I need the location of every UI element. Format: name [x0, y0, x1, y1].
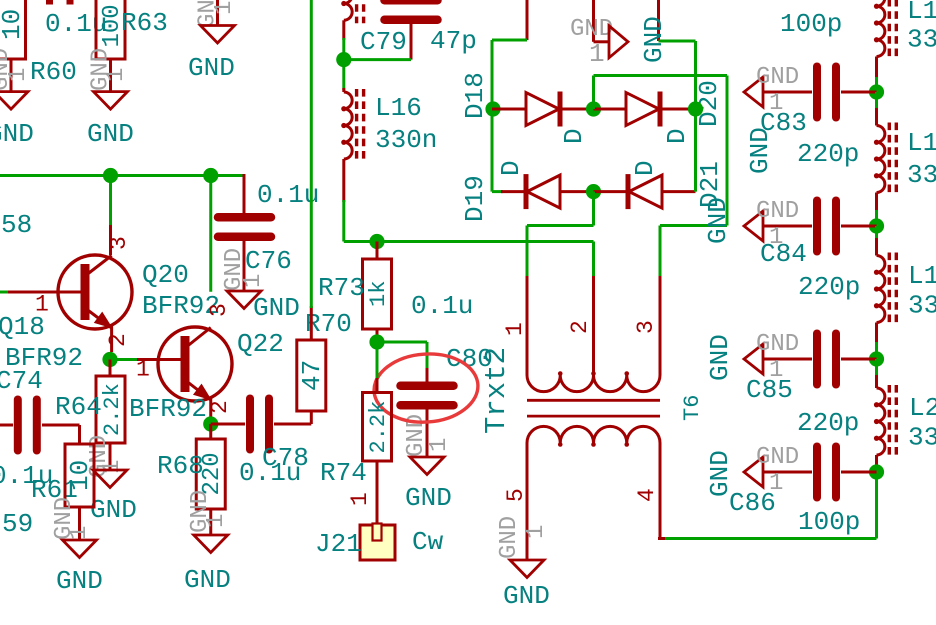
svg-text:D: D	[630, 160, 660, 176]
label BFR92 (Q20)	[142, 291, 220, 321]
resistor R64	[96, 376, 125, 443]
junction N (C85)	[869, 351, 884, 366]
svg-text:C74: C74	[0, 366, 43, 396]
ground (R68)	[194, 535, 228, 553]
svg-text:1: 1	[589, 39, 605, 69]
wire stub to ground (top right of left block)	[216, 0, 219, 26]
label R70	[305, 309, 352, 339]
svg-text:GND: GND	[745, 127, 775, 174]
gray 1 label (R68 gnd)	[203, 514, 230, 528]
wire GND stub above bridge	[594, 0, 610, 42]
svg-text:Cw: Cw	[412, 527, 444, 557]
svg-text:33: 33	[907, 160, 936, 190]
resistor R68	[196, 439, 226, 509]
svg-text:220p: 220p	[798, 272, 860, 302]
pin 3 label (Q20 collector)	[106, 236, 132, 250]
label Q22	[237, 329, 284, 359]
svg-text:330n: 330n	[375, 125, 437, 155]
svg-text:D: D	[559, 128, 589, 144]
value 0.1u (C74)	[0, 461, 53, 491]
capacitor C80	[401, 386, 454, 406]
pin 1 label (J21)	[347, 492, 373, 506]
label BFR92 (Q22)	[129, 394, 207, 424]
diode D20	[626, 92, 660, 127]
svg-text:1: 1	[426, 438, 453, 452]
svg-text:GND: GND	[496, 516, 523, 559]
wire rail y=241.5	[344, 240, 594, 243]
wire C86 row	[763, 471, 877, 474]
wire junction H to D20 anode	[594, 108, 627, 111]
svg-text:T6: T6	[680, 395, 705, 421]
svg-text:58: 58	[1, 210, 32, 240]
inductor above C79 (partial at top edge)	[341, 0, 363, 23]
svg-text:GND: GND	[90, 495, 137, 525]
svg-text:1: 1	[103, 68, 130, 82]
label GND (C80)	[405, 483, 452, 513]
label C86	[729, 488, 776, 518]
gray 1 label (C83 gnd)	[769, 90, 783, 117]
wire C78 to R70	[274, 411, 311, 424]
pin 5 label (Trxt2)	[503, 488, 529, 502]
label R74	[320, 458, 367, 488]
label GND (R64)	[90, 495, 137, 525]
wire L16 down to junction F	[342, 159, 345, 242]
svg-text:L1: L1	[907, 128, 936, 158]
label 59 (left edge)	[2, 509, 33, 539]
resistor R60 (partial, left edge)	[0, 0, 27, 59]
pin 3 label (Trxt2)	[633, 320, 659, 334]
wire D18 cathode to junction H	[562, 108, 594, 111]
capacitor C84	[817, 201, 836, 252]
inductor L2	[874, 385, 896, 458]
svg-text:1: 1	[240, 274, 267, 288]
inductor L1a (top, partial)	[874, 0, 896, 60]
svg-text:1: 1	[66, 526, 93, 540]
resistor R61	[65, 444, 95, 507]
svg-text:4: 4	[634, 488, 660, 502]
junction O (C86)	[869, 464, 884, 479]
svg-text:1: 1	[5, 68, 32, 82]
svg-text:GND: GND	[705, 334, 735, 381]
svg-text:R73: R73	[318, 273, 365, 303]
svg-text:220p: 220p	[797, 139, 859, 169]
pin 2 label (Trxt2)	[567, 320, 593, 334]
svg-text:R64: R64	[55, 392, 102, 422]
pin 3 label (Q22 collector)	[206, 303, 232, 317]
gray 1 label (C85 gnd)	[769, 357, 783, 384]
svg-text:R74: R74	[320, 458, 367, 488]
svg-text:GND: GND	[756, 198, 799, 225]
ground (C80)	[410, 457, 444, 475]
value 0.1u (C80)	[411, 291, 473, 321]
highlight ellipse around C80	[372, 351, 480, 426]
wire junction K to R74	[376, 342, 379, 393]
gray GND label (C85 gnd)	[756, 331, 799, 358]
value 100p (C86)	[798, 507, 860, 537]
wire junction J to D21 bar	[594, 190, 629, 193]
wire C80 to ground	[426, 409, 429, 458]
inductor L16	[341, 89, 363, 162]
svg-text:C84: C84	[760, 239, 807, 269]
pin D label (D21)	[630, 160, 660, 176]
gray 1 label (C80 gnd)	[426, 438, 453, 452]
wire C79 down to junction E wire	[410, 24, 413, 60]
value 47p (C79)	[430, 26, 477, 56]
svg-text:1: 1	[99, 460, 126, 474]
wire top entry x=658.5 to junction I	[659, 0, 696, 109]
svg-text:1: 1	[136, 357, 150, 383]
junction H (D18-D20)	[586, 101, 601, 116]
label GND net (C85)	[705, 334, 735, 381]
wire bridge left vertical	[491, 40, 494, 192]
junction K	[369, 334, 384, 349]
wire R73 to junction K	[376, 329, 379, 342]
wire inductor to junction E	[342, 20, 345, 59]
svg-text:C79: C79	[360, 27, 407, 57]
wire D19 anode to junction J	[560, 190, 594, 193]
junction D (Q22 emitter)	[203, 416, 218, 431]
value 330n (L16)	[375, 125, 437, 155]
gray 1 label (pin5 gnd)	[523, 525, 550, 539]
capacitor C78	[250, 399, 269, 450]
gray 1 label (bridge top gnd)	[589, 39, 605, 69]
label Q20	[142, 260, 189, 290]
capacitor C86	[817, 447, 836, 498]
svg-text:C86: C86	[729, 488, 776, 518]
ground (C85, left-pointing)	[744, 344, 763, 374]
label Cw	[412, 527, 444, 557]
svg-text:GND: GND	[188, 53, 235, 83]
value 0.1u (C76)	[257, 180, 319, 210]
svg-text:GND: GND	[705, 450, 735, 497]
label L2	[909, 393, 936, 423]
svg-text:33: 33	[908, 291, 936, 321]
svg-text:47p: 47p	[430, 26, 477, 56]
wire to C76	[243, 174, 246, 213]
value 0.1u (top-left capacitor)	[45, 9, 107, 39]
label GND (R61)	[56, 566, 103, 596]
gray GND label (C83 gnd)	[756, 64, 799, 91]
ground (bridge top, right-pointing)	[609, 26, 628, 58]
svg-text:33: 33	[908, 423, 936, 453]
svg-text:1: 1	[523, 525, 550, 539]
wire D19 row left	[492, 190, 526, 193]
value 33 (L1 top)	[907, 25, 936, 55]
value 100p (cap above, off-screen)	[780, 9, 842, 39]
wire R70 up (long green vertical)	[310, 0, 313, 340]
wire horizontal main rail	[0, 174, 244, 177]
value 220p (C84)	[798, 272, 860, 302]
svg-text:1: 1	[502, 322, 528, 336]
svg-text:2.2k: 2.2k	[100, 383, 125, 436]
pin 1 label (Q20 base)	[35, 292, 49, 318]
value 220p (C85)	[797, 408, 859, 438]
pin 2 label (Q20 emitter)	[105, 333, 131, 347]
junction F	[369, 234, 384, 249]
svg-text:GND: GND	[405, 483, 452, 513]
capacitor plate stubs (top edge, partial)	[46, 0, 74, 5]
transformer Trxt2 primary winding	[527, 371, 660, 391]
pin D label (D20)	[662, 128, 692, 144]
svg-text:GND: GND	[639, 16, 669, 63]
label Q18	[0, 312, 45, 342]
label J21	[315, 529, 362, 559]
label L16	[375, 93, 422, 123]
label BFR92 (Q18)	[5, 343, 83, 373]
wire junction K to C80	[377, 342, 427, 382]
label C76	[245, 246, 292, 276]
label C85	[746, 375, 793, 405]
svg-text:GND: GND	[56, 566, 103, 596]
label C83	[760, 108, 807, 138]
svg-text:1k: 1k	[366, 281, 391, 307]
svg-text:10: 10	[65, 460, 95, 491]
gray GND label (C84 gnd)	[756, 198, 799, 225]
wire pin4 to output rail	[658, 443, 877, 539]
svg-text:C76: C76	[245, 246, 292, 276]
svg-text:3: 3	[633, 320, 659, 334]
value 0.1u (C78)	[239, 458, 301, 488]
wire junction E down to L16	[342, 60, 345, 92]
ground (R60)	[0, 92, 28, 110]
resistor R63 (partial top)	[96, 0, 126, 59]
wire R61 to ground	[78, 507, 81, 540]
ground (C83, left-pointing)	[744, 77, 763, 107]
svg-text:R60: R60	[30, 57, 77, 87]
connector J21	[360, 524, 395, 561]
gray GND label (R61 gnd)	[51, 497, 78, 540]
resistor R70	[297, 340, 327, 411]
svg-text:R63: R63	[121, 8, 168, 38]
wire junction E to C79 branch	[344, 58, 411, 61]
gray GND label (C76 gnd)	[221, 248, 248, 291]
ground (R61)	[63, 540, 97, 558]
wire Q22 emitter down	[209, 398, 212, 424]
label GND net (pin3 wire / C84)	[703, 197, 733, 244]
gray GND label (R63 gnd)	[88, 48, 115, 91]
pin 2 label (Q22 emitter)	[207, 400, 233, 414]
svg-text:Q20: Q20	[142, 260, 189, 290]
label D18	[460, 72, 490, 119]
label GND (Trxt2 pin5)	[503, 581, 550, 611]
ground (C84, left-pointing)	[744, 211, 763, 241]
gray 1 label (R64 gnd)	[99, 460, 126, 474]
wire junction D to R68	[209, 424, 212, 439]
label C74	[0, 366, 43, 396]
label R61	[31, 475, 78, 505]
wire Q20 emitter down	[111, 326, 112, 360]
svg-text:R68: R68	[157, 451, 204, 481]
gray 1 label (R61 gnd)	[66, 526, 93, 540]
svg-text:1: 1	[211, 1, 238, 15]
svg-text:J21: J21	[315, 529, 362, 559]
wire C74 to R61	[42, 425, 80, 444]
svg-text:220p: 220p	[797, 408, 859, 438]
svg-text:1: 1	[203, 514, 230, 528]
transistor Q20	[58, 255, 132, 329]
gray GND label (R60 gnd)	[0, 48, 15, 91]
label C80	[446, 344, 493, 374]
wire junction C to R64	[109, 360, 112, 377]
label GND net (C86)	[705, 450, 735, 497]
svg-text:10: 10	[0, 9, 27, 40]
wire C85 row	[763, 358, 877, 361]
label GND (C76)	[253, 293, 300, 323]
junction M (C84)	[869, 218, 884, 233]
label GND net (C83)	[745, 127, 775, 174]
svg-text:GND: GND	[756, 64, 799, 91]
wire L2 ends	[875, 359, 878, 472]
value 33 (L1 third)	[908, 291, 936, 321]
svg-text:GND: GND	[87, 119, 134, 149]
wire C83 row	[763, 91, 877, 94]
junction I (D20 cathode)	[688, 101, 703, 116]
label C79	[360, 27, 407, 57]
wire to D18 anode	[492, 108, 526, 111]
junction G (D18 anode)	[485, 101, 500, 116]
svg-text:GND: GND	[0, 119, 34, 149]
ground (C76)	[227, 291, 261, 309]
diode D19	[526, 174, 560, 209]
resistor R74	[363, 393, 392, 462]
gray GND label (C80 gnd)	[403, 414, 430, 457]
gray 1 label (C76 gnd)	[240, 274, 267, 288]
label D20	[694, 80, 724, 127]
gray 1 label (C84 gnd)	[769, 224, 783, 251]
label Trxt2	[480, 347, 513, 434]
wire R60 to ground	[10, 59, 13, 92]
wire C76 to ground	[243, 241, 246, 292]
junction A	[103, 168, 118, 183]
svg-text:Trxt2: Trxt2	[480, 347, 513, 434]
wire D21 anode up to junction I	[694, 109, 697, 192]
label R60	[30, 57, 77, 87]
wire L1c ends	[875, 226, 878, 359]
svg-text:2.2k: 2.2k	[366, 401, 391, 454]
wire Q20 base from left edge	[0, 291, 81, 294]
label GND (R63)	[87, 119, 134, 149]
wire R68 to ground	[209, 509, 212, 535]
wire pin5 to ground	[526, 443, 529, 560]
wire junction A down	[109, 176, 112, 256]
label R64	[55, 392, 102, 422]
wire to transformer pin3	[660, 226, 727, 376]
svg-text:GND: GND	[703, 197, 733, 244]
transformer core	[527, 400, 660, 416]
label R68	[157, 451, 204, 481]
wire into C74 from left edge	[0, 424, 13, 427]
wire C84 row	[763, 225, 877, 228]
label 58 (left edge)	[1, 210, 32, 240]
junction J (D19-D21)	[586, 184, 601, 199]
label L1 (third)	[908, 261, 936, 291]
gray GND label (bridge top gnd)	[570, 16, 613, 43]
transformer secondary winding	[527, 426, 660, 446]
label D19	[460, 175, 490, 222]
svg-text:47: 47	[297, 360, 327, 391]
wire junction C to Q22 base	[110, 358, 181, 361]
svg-text:100p: 100p	[798, 507, 860, 537]
svg-text:1: 1	[347, 492, 373, 506]
svg-text:GND: GND	[184, 565, 231, 595]
wire R74 to J21	[376, 461, 379, 527]
svg-text:L1: L1	[908, 261, 936, 291]
svg-text:3: 3	[206, 303, 232, 317]
wire L1b ends	[875, 92, 878, 226]
gray 1 label (R63 gnd)	[103, 68, 130, 82]
pin 1 label (Q22 base)	[136, 357, 150, 383]
diode D21	[628, 174, 662, 209]
wire R64 to ground	[109, 443, 112, 470]
label T6	[680, 395, 705, 421]
value 33 (L1 second)	[907, 160, 936, 190]
pin D label (D19)	[496, 160, 526, 176]
ground (C86, left-pointing)	[744, 457, 763, 487]
gray 1 label (C86 gnd)	[769, 470, 783, 497]
gray GND label (C86 gnd)	[756, 444, 799, 471]
label C78	[262, 443, 309, 473]
label GND (top)	[188, 53, 235, 83]
pin D label (D18)	[559, 128, 589, 144]
svg-text:D19: D19	[460, 175, 490, 222]
svg-text:GND: GND	[756, 444, 799, 471]
resistor R73	[363, 259, 392, 329]
diode D18	[526, 92, 560, 127]
label L1 (second)	[907, 128, 936, 158]
wire D21 anode right	[662, 190, 696, 193]
svg-text:33: 33	[907, 25, 936, 55]
svg-text:D18: D18	[460, 72, 490, 119]
label D21	[695, 161, 725, 208]
svg-text:C85: C85	[746, 375, 793, 405]
gray GND label (R64 gnd)	[86, 435, 113, 478]
label L1 (top)	[907, 0, 936, 26]
svg-text:L1: L1	[907, 0, 936, 26]
gray 1 label (R60 gnd)	[5, 68, 32, 82]
wire junction J down-left to transformer pin1	[527, 192, 594, 375]
label GND (R60)	[0, 119, 34, 149]
junction B	[203, 168, 218, 183]
svg-text:5: 5	[503, 488, 529, 502]
gray GND label (R68 gnd)	[187, 490, 214, 533]
wire L1a to junction L	[875, 57, 878, 93]
wire x=727 down	[726, 76, 729, 226]
svg-text:59: 59	[2, 509, 33, 539]
label GND (R68)	[184, 565, 231, 595]
svg-text:Q18: Q18	[0, 312, 45, 342]
pin 1 label (Trxt2)	[502, 322, 528, 336]
ground (R64)	[93, 470, 127, 488]
label R63	[121, 8, 168, 38]
wire transformer pin2 drop	[592, 242, 595, 376]
transistor Q22	[158, 327, 232, 401]
svg-text:L16: L16	[375, 93, 422, 123]
svg-text:0.1u: 0.1u	[411, 291, 473, 321]
svg-text:GND: GND	[756, 331, 799, 358]
svg-text:0.1u: 0.1u	[239, 458, 301, 488]
svg-text:2: 2	[567, 320, 593, 334]
value 33 (L2)	[908, 423, 936, 453]
capacitor C74	[18, 400, 37, 451]
svg-text:Q22: Q22	[237, 329, 284, 359]
label GND net (top bridge)	[639, 16, 669, 63]
svg-text:100p: 100p	[780, 9, 842, 39]
gray GND label (top gnd)	[195, 0, 222, 28]
inductor L1b	[874, 123, 896, 196]
wire junction F to R73	[376, 242, 379, 260]
svg-text:3: 3	[106, 236, 132, 250]
ground (Trxt2 pin5)	[510, 560, 544, 578]
